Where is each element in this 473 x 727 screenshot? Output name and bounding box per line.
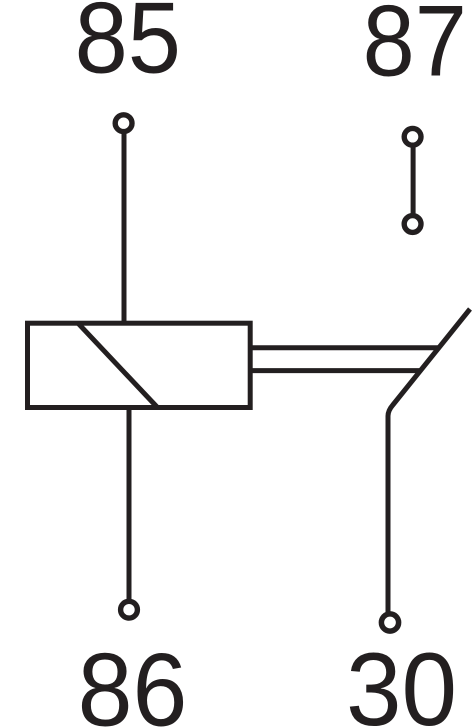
label 30: [346, 631, 457, 727]
contact throw wire lower: [250, 368, 421, 373]
contact throw wire upper (to 87): [250, 345, 438, 350]
relay coil K1 box: [28, 323, 251, 407]
wire coil pin 86: [127, 406, 132, 600]
terminal circle 30: [381, 614, 398, 631]
label 87: [363, 0, 467, 97]
terminal circle 87 upper: [404, 128, 421, 145]
svg-text:85: 85: [75, 0, 181, 94]
switch arm and wire to 30: [388, 309, 470, 613]
wire coil pin 85: [122, 132, 127, 324]
svg-text:87: 87: [363, 0, 467, 97]
label 86: [78, 632, 188, 727]
coil diagonal stroke: [78, 323, 158, 407]
wire between 87 terminals: [411, 145, 416, 216]
terminal circle 86: [121, 601, 138, 618]
label 85: [75, 0, 181, 94]
terminal circle 85: [115, 115, 132, 132]
terminal circle 87 lower: [404, 216, 421, 233]
svg-text:30: 30: [346, 631, 457, 727]
svg-text:86: 86: [78, 632, 188, 727]
